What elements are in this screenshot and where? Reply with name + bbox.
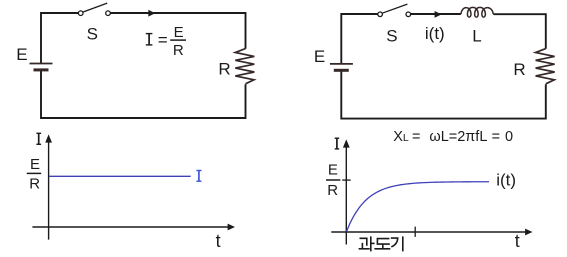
svg-text:R: R [173, 42, 184, 59]
svg-text:E: E [16, 45, 27, 64]
svg-text:=: = [158, 31, 168, 50]
svg-text:i(t): i(t) [496, 171, 516, 190]
svg-text:S: S [386, 26, 397, 45]
svg-text:i(t): i(t) [425, 24, 445, 43]
svg-text:E: E [30, 156, 40, 173]
svg-text:R: R [29, 175, 40, 192]
svg-text:t: t [216, 231, 221, 251]
svg-text:R: R [513, 60, 525, 79]
svg-text:t: t [515, 231, 520, 251]
svg-text:L: L [472, 27, 481, 46]
svg-text:XL=ωL=2πfL=0: XL=ωL=2πfL=0 [393, 129, 513, 145]
svg-text:S: S [87, 24, 98, 43]
svg-text:R: R [218, 60, 230, 79]
svg-text:E: E [328, 162, 338, 179]
svg-text:E: E [174, 24, 184, 41]
svg-text:R: R [327, 182, 338, 199]
svg-text:E: E [314, 47, 325, 66]
